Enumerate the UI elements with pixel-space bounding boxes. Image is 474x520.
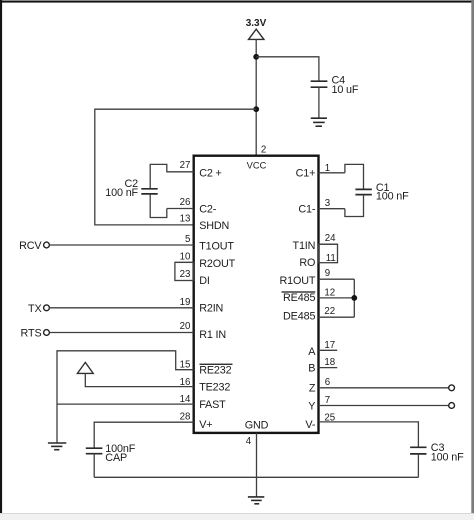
svg-text:Y: Y: [308, 401, 315, 413]
border frame top: [0, 1, 472, 3]
junction VCC-C4: [253, 54, 259, 60]
svg-text:RO: RO: [299, 257, 315, 269]
svg-text:VCC: VCC: [247, 161, 267, 171]
svg-text:5: 5: [185, 234, 190, 245]
border frame right: [471, 0, 474, 513]
svg-text:4: 4: [246, 436, 252, 447]
svg-text:CAP: CAP: [105, 452, 127, 464]
label C1 value 100 nF: [376, 182, 409, 203]
svg-text:100 nF: 100 nF: [376, 191, 409, 203]
pin label RE485 (active low): [282, 292, 316, 304]
svg-text:23: 23: [180, 269, 191, 280]
ground left rail: [48, 443, 66, 450]
wire pin 7 Y: [319, 405, 449, 407]
wire C2 to pin26: [150, 194, 167, 218]
wire C1 to pin 3: [345, 195, 364, 217]
border frame left: [0, 0, 2, 513]
svg-text:A: A: [308, 346, 316, 358]
svg-text:Z: Z: [309, 383, 316, 395]
svg-text:12: 12: [324, 288, 335, 299]
svg-text:13: 13: [180, 214, 191, 225]
svg-text:DI: DI: [199, 275, 210, 287]
label C2 value 100 nF: [105, 178, 138, 199]
label C3 value 100 nF: [431, 442, 464, 464]
wire pin 22 DE485: [319, 316, 355, 318]
svg-text:V+: V+: [199, 419, 212, 431]
wire VCC to SHDN pin 13: [95, 109, 256, 225]
wire junction vertical 9-12-22: [353, 279, 355, 317]
svg-text:16: 16: [180, 377, 191, 388]
svg-text:SHDN: SHDN: [199, 220, 229, 232]
power symbol 3.3V: [249, 29, 264, 39]
svg-text:T1IN: T1IN: [293, 240, 316, 252]
wire pin27 to C2: [150, 164, 167, 188]
wire FAST pin 14 to ground rail: [57, 403, 194, 405]
wire RCV to pin 5: [49, 244, 193, 246]
wire TE232 to pin 16: [85, 373, 193, 386]
wire TX to pin 19: [49, 307, 193, 309]
svg-text:28: 28: [180, 412, 191, 423]
svg-text:R2OUT: R2OUT: [199, 258, 235, 270]
pin 11 box: [319, 244, 338, 263]
ground C4: [311, 118, 327, 126]
svg-text:R1OUT: R1OUT: [279, 275, 315, 287]
svg-text:C1+: C1+: [296, 168, 316, 180]
pin 24 stub: [319, 243, 338, 245]
capacitor C3: [410, 447, 426, 454]
pin label RE232 (active low): [199, 364, 232, 376]
svg-text:100 nF: 100 nF: [431, 452, 464, 464]
svg-text:C1-: C1-: [298, 204, 316, 216]
capacitor C1: [355, 189, 371, 194]
wire VCC vertical to pin 2: [255, 39, 257, 155]
svg-text:RE485: RE485: [283, 292, 315, 304]
terminal Z: [449, 385, 455, 391]
svg-text:22: 22: [324, 306, 335, 317]
svg-text:100 nF: 100 nF: [105, 187, 138, 199]
svg-text:18: 18: [324, 357, 335, 368]
wire RE232 pin 15 to ground rail: [57, 351, 194, 443]
svg-text:T1OUT: T1OUT: [199, 241, 234, 253]
pin 1 stub: [319, 172, 345, 174]
pin 23 box: [175, 262, 194, 280]
wire C3 down to bottom rail: [417, 454, 419, 477]
terminal Y: [449, 403, 455, 409]
svg-text:TE232: TE232: [199, 381, 230, 393]
svg-text:1: 1: [325, 163, 330, 174]
svg-text:25: 25: [324, 413, 335, 424]
wire pin 4 GND: [256, 433, 258, 497]
svg-text:6: 6: [325, 377, 330, 388]
wire pin 6 Z: [319, 387, 449, 389]
svg-text:TX: TX: [28, 303, 42, 315]
svg-text:19: 19: [180, 297, 191, 308]
svg-text:RE232: RE232: [199, 364, 231, 376]
label C4 value 10 uF: [332, 75, 359, 96]
bottom gray strip: [0, 513, 474, 520]
svg-text:3: 3: [325, 198, 330, 209]
wire bottom rail: [94, 476, 418, 478]
svg-text:9: 9: [325, 268, 330, 279]
svg-text:R2IN: R2IN: [199, 303, 223, 315]
wire VCC to C4: [256, 57, 319, 81]
pin 18 stub: [319, 367, 338, 369]
svg-text:GND: GND: [245, 419, 269, 431]
wire pin 9 R1OUT: [319, 278, 355, 280]
svg-text:26: 26: [180, 197, 191, 208]
capacitor C2: [141, 189, 157, 194]
svg-text:24: 24: [325, 233, 336, 244]
IC U1 transceiver body: [194, 156, 319, 433]
junction VCC-SHDN: [253, 106, 259, 112]
svg-text:RTS: RTS: [21, 328, 42, 340]
svg-text:15: 15: [180, 360, 191, 371]
svg-text:11: 11: [326, 253, 336, 264]
svg-text:R1 IN: R1 IN: [199, 329, 226, 341]
junction dot 485: [351, 295, 357, 301]
svg-text:14: 14: [180, 394, 191, 405]
pin 26 stub: [167, 208, 194, 210]
svg-text:10 uF: 10 uF: [332, 84, 359, 96]
svg-text:27: 27: [180, 160, 191, 171]
pin 27 stub: [167, 171, 194, 173]
pin 3 stub: [319, 208, 345, 210]
svg-text:7: 7: [325, 395, 330, 406]
svg-text:2: 2: [261, 145, 266, 156]
pin 17 stub: [319, 349, 338, 351]
wire pin1 to C1: [345, 164, 364, 189]
wire pin 28 V+ to CAP: [94, 422, 194, 448]
svg-text:C2 +: C2 +: [199, 168, 222, 180]
power symbol TE232: [77, 362, 93, 373]
svg-text:20: 20: [180, 321, 191, 332]
label CAP value 100nF: [105, 443, 135, 464]
wire C4 to ground: [318, 87, 320, 118]
svg-text:B: B: [308, 362, 315, 374]
svg-text:17: 17: [324, 340, 335, 351]
ground pin 4: [248, 497, 264, 504]
svg-text:V-: V-: [305, 419, 315, 431]
capacitor C4: [311, 81, 328, 87]
wire RTS to pin 20: [49, 332, 193, 334]
capacitor CAP: [86, 448, 103, 454]
svg-text:DE485: DE485: [283, 310, 315, 322]
wire CAP down: [93, 454, 95, 478]
svg-text:C2-: C2-: [199, 204, 217, 216]
svg-text:3.3V: 3.3V: [246, 18, 267, 29]
wire pin 25 V- to C3: [319, 422, 419, 447]
wire pin 12 RE485: [319, 297, 355, 299]
pin 10 stub: [175, 261, 194, 263]
svg-text:10: 10: [180, 252, 191, 263]
svg-text:RCV: RCV: [19, 240, 42, 252]
svg-text:FAST: FAST: [199, 399, 226, 411]
